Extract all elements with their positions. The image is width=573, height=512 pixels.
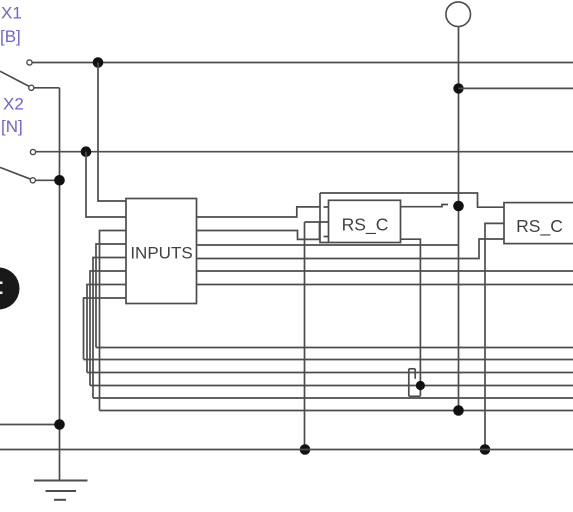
wire INPUTS left pin 6	[90, 271, 126, 386]
switch X1 pole (open circle)	[29, 85, 34, 90]
wire RS_C output with jog	[401, 205, 449, 207]
wire bus line 5	[93, 397, 573, 399]
junction on bus line 6	[453, 405, 464, 416]
wire INPUTS right pin 1 to RS_C	[197, 207, 321, 217]
wire INPUTS right pin 3	[197, 244, 459, 246]
ground	[34, 481, 88, 500]
block RS_C left	[329, 200, 401, 242]
wire INPUTS right pin 4 to RS_C right	[197, 239, 505, 259]
junction	[54, 419, 65, 430]
wire branch right	[459, 87, 573, 89]
wire RS_C lower output	[401, 239, 421, 396]
wire stub to ground node	[0, 424, 60, 426]
switch X2 pole (open circle)	[30, 178, 35, 183]
junction	[81, 146, 92, 157]
wire net B top rail	[32, 62, 573, 64]
block INPUTS	[126, 199, 197, 304]
wire vertical node	[320, 193, 329, 243]
wire INPUTS left pin 3	[100, 231, 127, 411]
pin stub 1	[324, 206, 329, 208]
svg-text:INPUTS: INPUTS	[130, 244, 192, 263]
wire	[98, 63, 126, 202]
wire INPUTS right pin 2 to RS_C	[197, 222, 320, 239]
svg-text:X2: X2	[3, 95, 24, 114]
wire bottom rail	[0, 449, 573, 451]
wire	[86, 152, 126, 217]
wire INPUTS left pin 8	[84, 298, 127, 360]
wire bus line 4	[90, 385, 573, 387]
wire INPUTS left pin 5	[93, 258, 126, 399]
wire INPUTS left pin 7	[87, 285, 126, 373]
wire down to bottom rail	[304, 222, 306, 450]
junction	[453, 83, 463, 93]
wire bus line 6	[100, 410, 573, 412]
wire INPUTS right pin 6	[197, 284, 573, 286]
switch X1 lever	[0, 71, 30, 86]
switch X2 contact (open circle)	[30, 149, 35, 154]
wire bus line 3	[87, 372, 573, 374]
svg-text:RS_C: RS_C	[516, 216, 563, 237]
junction	[453, 201, 464, 212]
junction on bottom rail	[480, 444, 491, 455]
svg-text:[B]: [B]	[0, 27, 21, 46]
wire RS_C pin 2 net	[305, 221, 329, 223]
wire net N rail	[36, 151, 573, 153]
terminal label X1 [B]	[0, 4, 22, 47]
wire bus line 1	[96, 347, 573, 349]
wire	[34, 87, 59, 89]
wire top link between RS_C blocks	[320, 193, 504, 207]
svg-text:[N]: [N]	[1, 117, 23, 136]
terminal label X2 [N]	[1, 95, 24, 137]
wire INPUTS left pin 4	[96, 244, 126, 348]
terminal circle top	[446, 2, 471, 27]
wire bus line 2	[84, 359, 573, 361]
block RS_C right	[504, 203, 573, 244]
switch X1 contact (open circle)	[27, 60, 32, 65]
svg-text:RS_C: RS_C	[342, 215, 389, 236]
wire RS_C right pin 2	[485, 223, 504, 449]
wire	[36, 179, 60, 181]
node marker highlights	[0, 282, 3, 295]
node marker (left edge black disc)	[0, 268, 20, 310]
junction on bottom rail	[300, 444, 311, 455]
switch X2 lever	[0, 167, 31, 179]
svg-text:X1: X1	[1, 4, 22, 23]
wire INPUTS right pin 5	[197, 270, 573, 272]
wire left vertical	[59, 88, 61, 480]
junction	[54, 175, 65, 186]
wire main vertical	[458, 27, 460, 411]
pin stub 3	[324, 236, 329, 238]
junction	[93, 57, 104, 68]
junction on bus line 4	[416, 381, 425, 390]
tap symbol	[409, 369, 421, 397]
